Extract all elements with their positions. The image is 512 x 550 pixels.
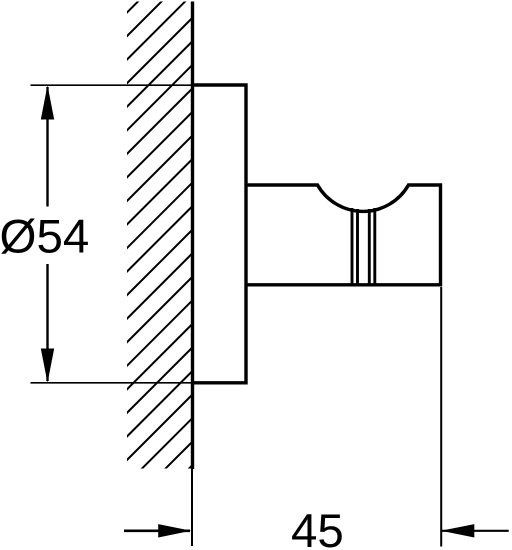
wall surface line (thick) — [191, 2, 194, 470]
dim Ø54: bottom extension line — [31, 382, 192, 384]
svg-text:45: 45 — [291, 505, 344, 550]
groove line 4 — [373, 208, 376, 284]
groove line 2 — [356, 209, 359, 284]
dim 45: right arrowhead — [441, 524, 474, 537]
groove line 3 — [368, 209, 371, 284]
dim Ø54: vertical dimension line upper segment — [46, 87, 48, 207]
groove line 1 — [351, 208, 354, 284]
dim 45: left arrowhead — [158, 524, 191, 537]
dim Ø54: vertical dimension line lower segment — [46, 264, 48, 381]
dim 45: left dimension line — [124, 529, 190, 532]
mounting plate outline — [191, 85, 246, 383]
wall extension line (thin, below) — [191, 469, 193, 546]
dim Ø54: lower arrowhead — [41, 349, 54, 383]
dim 45: right dimension line — [442, 530, 509, 532]
hook stem outline with concave notch arc — [246, 185, 441, 285]
svg-text:Ø54: Ø54 — [0, 210, 89, 263]
dim 45: right extension line — [440, 287, 442, 547]
dim Ø54: upper arrowhead — [41, 85, 54, 119]
dim Ø54: top extension line — [31, 84, 192, 86]
